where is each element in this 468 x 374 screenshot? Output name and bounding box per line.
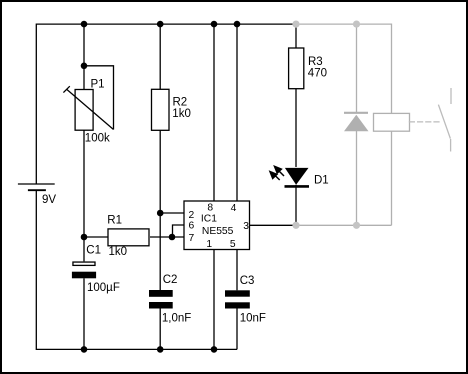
svg-text:D1: D1: [314, 175, 329, 187]
svg-text:6: 6: [189, 221, 195, 232]
svg-text:9V: 9V: [42, 194, 56, 206]
svg-text:5: 5: [230, 239, 236, 250]
svg-text:C1: C1: [86, 245, 101, 257]
svg-text:1: 1: [206, 239, 212, 250]
svg-text:2: 2: [189, 210, 195, 221]
svg-text:IC1: IC1: [201, 214, 217, 225]
svg-text:R3: R3: [308, 56, 323, 68]
svg-text:C2: C2: [163, 274, 178, 286]
svg-text:1k0: 1k0: [109, 246, 128, 258]
svg-text:NE555: NE555: [202, 226, 234, 237]
svg-text:10nF: 10nF: [240, 313, 266, 325]
svg-text:7: 7: [189, 233, 195, 244]
svg-text:R2: R2: [173, 96, 188, 108]
svg-text:R1: R1: [107, 214, 122, 226]
svg-text:1k0: 1k0: [172, 108, 191, 120]
svg-text:100µF: 100µF: [87, 282, 120, 294]
svg-text:100k: 100k: [85, 133, 110, 145]
svg-text:8: 8: [207, 203, 213, 214]
svg-text:P1: P1: [91, 79, 105, 91]
svg-text:1,0nF: 1,0nF: [162, 313, 191, 325]
svg-text:C3: C3: [240, 275, 255, 287]
svg-text:4: 4: [231, 203, 237, 214]
svg-text:470: 470: [308, 68, 327, 80]
svg-text:3: 3: [243, 221, 249, 232]
